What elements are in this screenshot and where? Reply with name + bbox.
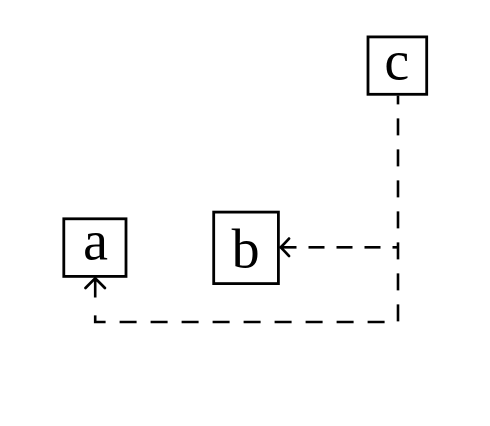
- svg-text:a: a: [83, 211, 108, 273]
- svg-text:c: c: [384, 31, 409, 93]
- svg-text:b: b: [232, 219, 260, 281]
